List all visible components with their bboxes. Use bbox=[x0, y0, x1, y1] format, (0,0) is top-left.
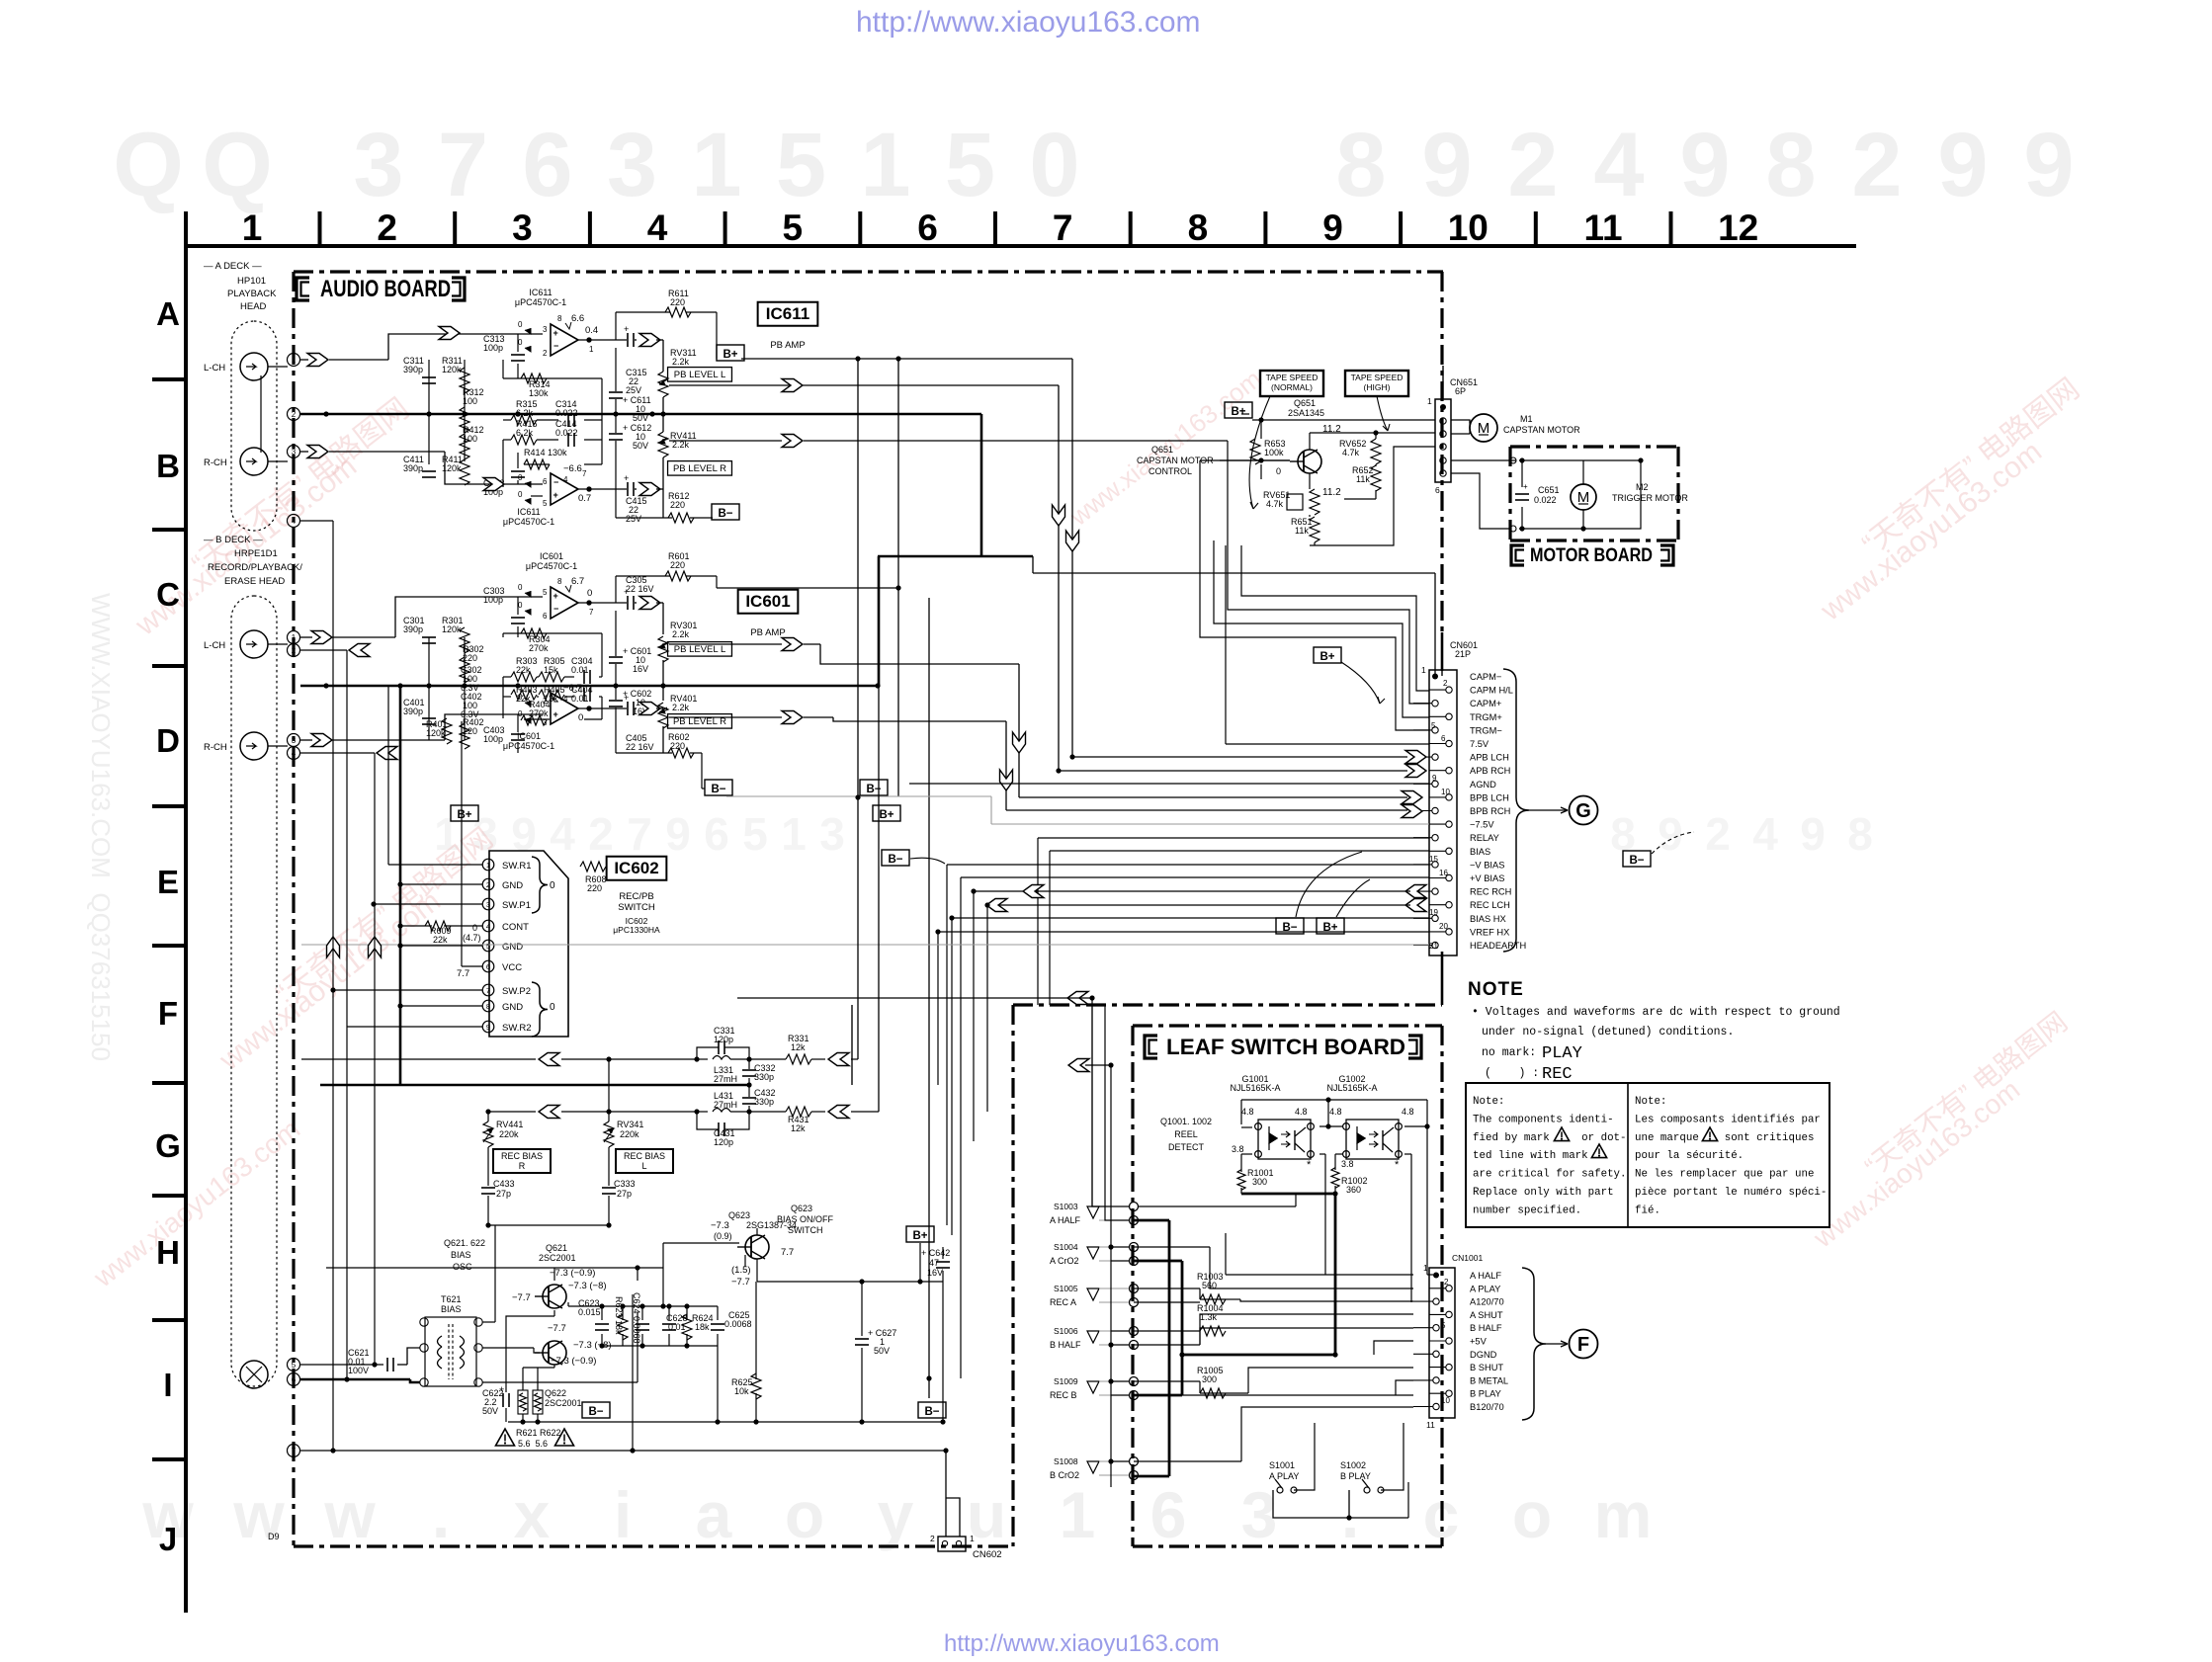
svg-text:S1004: S1004 bbox=[1054, 1242, 1078, 1252]
svg-text:5: 5 bbox=[783, 208, 804, 248]
svg-text:9: 9 bbox=[511, 808, 537, 860]
svg-text:1: 1 bbox=[292, 356, 297, 365]
svg-text:m: m bbox=[1594, 1478, 1653, 1551]
svg-text:A: A bbox=[156, 295, 180, 332]
svg-text:( ) :: ( ) : bbox=[1485, 1067, 1539, 1080]
svg-text:BIAS: BIAS bbox=[451, 1250, 471, 1260]
svg-text:6.7: 6.7 bbox=[571, 576, 584, 587]
svg-text:220: 220 bbox=[670, 297, 685, 307]
svg-text:NOTE: NOTE bbox=[1468, 979, 1524, 1000]
svg-text:1: 1 bbox=[1427, 396, 1432, 406]
svg-text:“天奇不有” 电路图网: “天奇不有” 电路图网 bbox=[1856, 373, 2085, 561]
svg-text:1: 1 bbox=[589, 345, 594, 354]
svg-text:8: 8 bbox=[1188, 208, 1209, 248]
svg-text:a: a bbox=[696, 1478, 733, 1551]
svg-text:R: R bbox=[519, 1161, 526, 1171]
svg-text:www.xiaoyu163.com: www.xiaoyu163.com bbox=[1807, 1074, 2025, 1254]
svg-text:B−: B− bbox=[1629, 855, 1644, 867]
svg-text:0: 0 bbox=[518, 338, 523, 347]
svg-text:SW.R1: SW.R1 bbox=[502, 861, 532, 872]
svg-text:22 16V: 22 16V bbox=[626, 584, 654, 594]
svg-text:www.xiaoyu163.com: www.xiaoyu163.com bbox=[1814, 435, 2048, 627]
svg-text:μPC1330HA: μPC1330HA bbox=[613, 925, 660, 935]
svg-text:220: 220 bbox=[587, 883, 602, 893]
svg-text:AGND: AGND bbox=[1470, 780, 1496, 789]
svg-text:6: 6 bbox=[543, 477, 548, 486]
svg-text:B+: B+ bbox=[1319, 651, 1334, 663]
svg-text:• Voltages and waveforms are d: • Voltages and waveforms are dc with res… bbox=[1472, 1006, 1840, 1019]
svg-text:220k: 220k bbox=[620, 1129, 639, 1139]
svg-text:APB LCH: APB LCH bbox=[1470, 753, 1509, 763]
svg-text:o: o bbox=[1512, 1478, 1552, 1551]
svg-text:IC611: IC611 bbox=[766, 304, 809, 323]
svg-text:PB LEVEL R: PB LEVEL R bbox=[673, 716, 726, 727]
svg-text:REC LCH: REC LCH bbox=[1470, 900, 1510, 910]
svg-text:*: * bbox=[1395, 1159, 1400, 1171]
svg-text:A HALF: A HALF bbox=[1050, 1215, 1081, 1225]
svg-text:fié.: fié. bbox=[1635, 1205, 1660, 1216]
svg-text:50V: 50V bbox=[874, 1346, 890, 1356]
svg-text:PB LEVEL R: PB LEVEL R bbox=[673, 463, 726, 474]
svg-text:F: F bbox=[158, 995, 178, 1032]
svg-text:pièce portant le numéro spéci-: pièce portant le numéro spéci- bbox=[1635, 1187, 1827, 1199]
svg-text:TAPE SPEED: TAPE SPEED bbox=[1266, 373, 1319, 382]
svg-text:270k: 270k bbox=[529, 643, 549, 653]
svg-text:+: + bbox=[624, 324, 629, 334]
svg-text:18k: 18k bbox=[695, 1322, 710, 1332]
svg-text:SW.P1: SW.P1 bbox=[502, 900, 531, 911]
svg-text:9: 9 bbox=[1937, 115, 1988, 215]
svg-text:10: 10 bbox=[1441, 788, 1450, 796]
svg-text:REC: REC bbox=[1542, 1065, 1573, 1084]
svg-text:0: 0 bbox=[518, 601, 523, 610]
svg-text:11: 11 bbox=[1583, 208, 1622, 248]
svg-text:Replace only with part: Replace only with part bbox=[1473, 1187, 1614, 1199]
svg-text:SWITCH: SWITCH bbox=[618, 902, 655, 913]
svg-text:8: 8 bbox=[557, 577, 562, 586]
svg-text:4.8: 4.8 bbox=[1295, 1107, 1308, 1117]
svg-text:6: 6 bbox=[704, 808, 729, 860]
svg-text:BPB LCH: BPB LCH bbox=[1470, 792, 1509, 802]
svg-text:8: 8 bbox=[486, 1002, 490, 1011]
svg-text:9: 9 bbox=[1658, 808, 1683, 860]
svg-text:www.xiaoyu163.com: www.xiaoyu163.com bbox=[213, 884, 447, 1077]
svg-text:BIAS: BIAS bbox=[1470, 847, 1490, 857]
svg-text:5: 5 bbox=[945, 115, 995, 215]
svg-text:(0.9): (0.9) bbox=[714, 1231, 732, 1241]
svg-text:REC BIAS: REC BIAS bbox=[501, 1151, 543, 1161]
svg-text:RV341: RV341 bbox=[617, 1120, 643, 1129]
svg-text:3: 3 bbox=[819, 808, 845, 860]
svg-text:0.01: 0.01 bbox=[571, 665, 589, 675]
svg-text:22k: 22k bbox=[433, 935, 448, 945]
svg-text:+V BIAS: +V BIAS bbox=[1470, 873, 1504, 883]
svg-text:D: D bbox=[156, 722, 180, 759]
svg-text:(NORMAL): (NORMAL) bbox=[1271, 382, 1313, 392]
svg-text:−7.7: −7.7 bbox=[548, 1323, 566, 1334]
svg-text:L-CH: L-CH bbox=[204, 640, 225, 651]
svg-text:0: 0 bbox=[1029, 115, 1079, 215]
svg-text:C333: C333 bbox=[614, 1179, 636, 1189]
svg-text:Note:: Note: bbox=[1473, 1096, 1504, 1108]
svg-text:PB LEVEL L: PB LEVEL L bbox=[674, 644, 725, 655]
svg-text:22 16V: 22 16V bbox=[626, 742, 654, 752]
svg-text:Q651: Q651 bbox=[1294, 398, 1316, 408]
svg-text:6: 6 bbox=[1150, 1478, 1187, 1551]
svg-text:http://www.xiaoyu163.com: http://www.xiaoyu163.com bbox=[944, 1630, 1220, 1657]
svg-text:2: 2 bbox=[486, 880, 490, 889]
svg-text:3.8: 3.8 bbox=[1341, 1159, 1354, 1169]
svg-text:1: 1 bbox=[292, 633, 297, 642]
svg-text:0: 0 bbox=[1276, 466, 1281, 476]
svg-text:1: 1 bbox=[1060, 1478, 1096, 1551]
svg-text:APB RCH: APB RCH bbox=[1470, 766, 1510, 776]
svg-text:4: 4 bbox=[563, 475, 568, 484]
svg-text:A PLAY: A PLAY bbox=[1470, 1284, 1500, 1293]
svg-text:μPC4570C-1: μPC4570C-1 bbox=[526, 561, 577, 571]
svg-text:AUDIO BOARD: AUDIO BOARD bbox=[320, 276, 451, 302]
svg-text:3.8: 3.8 bbox=[1232, 1144, 1244, 1154]
svg-text:3: 3 bbox=[607, 115, 657, 215]
svg-text:pour la sécurité.: pour la sécurité. bbox=[1635, 1150, 1744, 1162]
svg-text:4: 4 bbox=[486, 922, 490, 931]
svg-text:5: 5 bbox=[776, 115, 826, 215]
svg-text:2SC2001: 2SC2001 bbox=[545, 1398, 582, 1408]
svg-text:−: − bbox=[553, 604, 558, 614]
svg-text:(HIGH): (HIGH) bbox=[1364, 382, 1391, 392]
svg-text:2SC2001: 2SC2001 bbox=[539, 1253, 576, 1263]
svg-text:www.xiaoyu163.com: www.xiaoyu163.com bbox=[87, 1114, 305, 1293]
svg-text:360: 360 bbox=[1346, 1185, 1361, 1195]
svg-text:390p: 390p bbox=[403, 706, 423, 716]
svg-text:(4.7): (4.7) bbox=[463, 933, 481, 943]
svg-text:IC602: IC602 bbox=[614, 859, 658, 877]
svg-text:0: 0 bbox=[518, 320, 523, 329]
svg-text:1: 1 bbox=[486, 861, 490, 870]
svg-text:A120/70: A120/70 bbox=[1470, 1297, 1504, 1307]
svg-text:0: 0 bbox=[518, 490, 523, 499]
svg-text:OSC: OSC bbox=[453, 1262, 472, 1272]
svg-text:330p: 330p bbox=[754, 1072, 774, 1082]
svg-text:7: 7 bbox=[438, 115, 488, 215]
svg-text:−: − bbox=[553, 477, 558, 487]
svg-text:PLAYBACK: PLAYBACK bbox=[227, 289, 277, 299]
svg-text:7: 7 bbox=[589, 608, 594, 617]
svg-text:IC611: IC611 bbox=[517, 507, 540, 517]
svg-text:9: 9 bbox=[2023, 115, 2074, 215]
svg-text:B−: B− bbox=[888, 854, 902, 866]
svg-text:0: 0 bbox=[550, 880, 555, 891]
svg-text:4: 4 bbox=[1593, 115, 1644, 215]
svg-text:B−: B− bbox=[588, 1406, 603, 1418]
svg-text:21P: 21P bbox=[1455, 649, 1471, 659]
svg-text:−: − bbox=[553, 341, 558, 351]
svg-text:TRGM−: TRGM− bbox=[1470, 725, 1502, 735]
svg-text:RELAY: RELAY bbox=[1470, 833, 1499, 843]
svg-text:NJL5165K-A: NJL5165K-A bbox=[1326, 1083, 1377, 1093]
svg-text:2: 2 bbox=[1443, 679, 1448, 688]
svg-text:BPB RCH: BPB RCH bbox=[1470, 806, 1510, 816]
svg-text:2: 2 bbox=[543, 349, 548, 358]
svg-text:2: 2 bbox=[292, 410, 297, 419]
svg-text:VREF HX: VREF HX bbox=[1470, 927, 1509, 937]
svg-text:−7.3 (−8): −7.3 (−8) bbox=[568, 1281, 607, 1291]
svg-text:SW.P2: SW.P2 bbox=[502, 986, 531, 997]
svg-text:8: 8 bbox=[557, 314, 562, 323]
svg-text:y: y bbox=[878, 1478, 914, 1551]
svg-text:16V: 16V bbox=[633, 664, 648, 674]
svg-text:6P: 6P bbox=[1455, 386, 1466, 396]
svg-text:220: 220 bbox=[670, 741, 685, 751]
svg-text:— B DECK —: — B DECK — bbox=[204, 535, 263, 545]
svg-text:NJL5165K-A: NJL5165K-A bbox=[1230, 1083, 1280, 1093]
svg-text:5: 5 bbox=[292, 1361, 297, 1370]
svg-text:0.01: 0.01 bbox=[571, 694, 589, 704]
svg-text:0: 0 bbox=[578, 712, 583, 723]
svg-text:DETECT: DETECT bbox=[1168, 1142, 1205, 1152]
svg-text:+: + bbox=[1523, 482, 1528, 491]
svg-text:2: 2 bbox=[1507, 115, 1558, 215]
svg-text:μPC4570C-1: μPC4570C-1 bbox=[503, 741, 554, 751]
svg-text:1: 1 bbox=[781, 808, 807, 860]
svg-text:A CrO2: A CrO2 bbox=[1050, 1256, 1079, 1266]
svg-text:10k: 10k bbox=[734, 1386, 749, 1396]
svg-text:IC601: IC601 bbox=[745, 592, 790, 611]
svg-text:−7.3 (−0.9): −7.3 (−0.9) bbox=[551, 1356, 596, 1367]
svg-text:x: x bbox=[514, 1478, 551, 1551]
svg-text:*: * bbox=[1307, 1159, 1312, 1171]
svg-text:9: 9 bbox=[665, 808, 691, 860]
svg-text:4: 4 bbox=[292, 749, 297, 758]
svg-text:100V: 100V bbox=[348, 1366, 369, 1375]
svg-text:12: 12 bbox=[1718, 208, 1758, 248]
svg-text:220: 220 bbox=[670, 560, 685, 570]
svg-text:4: 4 bbox=[292, 517, 297, 526]
svg-text:120p: 120p bbox=[714, 1035, 733, 1044]
svg-text:HRPE1D1: HRPE1D1 bbox=[234, 548, 278, 559]
svg-text:H: H bbox=[156, 1234, 180, 1271]
svg-text:25V: 25V bbox=[626, 514, 641, 524]
svg-text:5: 5 bbox=[1431, 721, 1436, 730]
svg-text:B PLAY: B PLAY bbox=[1470, 1389, 1501, 1399]
svg-text:HEADEARTH: HEADEARTH bbox=[1470, 941, 1526, 951]
svg-text:4.7k: 4.7k bbox=[1342, 448, 1360, 457]
svg-text:2.2k: 2.2k bbox=[672, 357, 690, 367]
svg-text:B+: B+ bbox=[1231, 406, 1245, 418]
svg-text:R621 R622: R621 R622 bbox=[516, 1428, 561, 1438]
svg-text:S1002: S1002 bbox=[1340, 1460, 1366, 1470]
svg-text:15: 15 bbox=[1429, 855, 1438, 864]
svg-text:CAPM+: CAPM+ bbox=[1470, 699, 1501, 708]
svg-text:Note:: Note: bbox=[1635, 1096, 1666, 1108]
svg-text:DGND: DGND bbox=[1470, 1350, 1497, 1360]
svg-text:B CrO2: B CrO2 bbox=[1050, 1470, 1079, 1480]
svg-text:C: C bbox=[156, 576, 180, 613]
svg-text:+: + bbox=[553, 591, 558, 601]
svg-text:2.2k: 2.2k bbox=[672, 629, 690, 639]
svg-text:4.8: 4.8 bbox=[1402, 1107, 1414, 1117]
svg-text:Les composants identifiés par: Les composants identifiés par bbox=[1635, 1114, 1821, 1125]
svg-text:3: 3 bbox=[292, 448, 297, 457]
svg-text:+5V: +5V bbox=[1470, 1337, 1488, 1347]
svg-text:10: 10 bbox=[1448, 208, 1489, 248]
svg-text:+: + bbox=[624, 473, 629, 483]
svg-text:5.6 5.6: 5.6 5.6 bbox=[518, 1439, 548, 1449]
svg-text:300: 300 bbox=[1202, 1374, 1217, 1384]
svg-text:11k: 11k bbox=[1356, 474, 1370, 484]
svg-text:2SA1345: 2SA1345 bbox=[1288, 408, 1324, 418]
svg-text:6: 6 bbox=[292, 1375, 297, 1384]
svg-text:5: 5 bbox=[543, 499, 548, 508]
svg-text:TRGM+: TRGM+ bbox=[1470, 712, 1502, 722]
svg-text:27p: 27p bbox=[496, 1189, 511, 1199]
svg-text:7: 7 bbox=[486, 986, 490, 995]
svg-text:220k: 220k bbox=[499, 1129, 519, 1139]
svg-text:5: 5 bbox=[742, 808, 768, 860]
svg-text:REEL: REEL bbox=[1174, 1129, 1198, 1139]
svg-text:+: + bbox=[553, 490, 558, 500]
svg-text:2: 2 bbox=[1851, 115, 1902, 215]
svg-text:L-CH: L-CH bbox=[204, 363, 225, 374]
svg-text:6.6: 6.6 bbox=[571, 313, 584, 324]
svg-text:REC B: REC B bbox=[1050, 1390, 1077, 1400]
svg-text:330p: 330p bbox=[754, 1097, 774, 1107]
svg-text:A PLAY: A PLAY bbox=[1269, 1471, 1299, 1481]
svg-text:0: 0 bbox=[550, 1002, 555, 1013]
svg-text:2: 2 bbox=[377, 208, 397, 248]
svg-text:3: 3 bbox=[486, 900, 490, 909]
svg-text:i: i bbox=[614, 1478, 632, 1551]
svg-text:G: G bbox=[1575, 800, 1591, 822]
svg-text:9: 9 bbox=[1322, 208, 1343, 248]
svg-text:B−: B− bbox=[718, 508, 732, 520]
svg-text:ted line with mark: ted line with mark bbox=[1473, 1150, 1588, 1162]
svg-text:−7.3 (−0.9): −7.3 (−0.9) bbox=[550, 1268, 595, 1279]
svg-text:S1009: S1009 bbox=[1054, 1376, 1078, 1386]
svg-text:2: 2 bbox=[588, 808, 614, 860]
svg-text:LEAF SWITCH BOARD: LEAF SWITCH BOARD bbox=[1166, 1035, 1405, 1059]
svg-text:7: 7 bbox=[1053, 208, 1073, 248]
svg-text:fied by mark or dot-: fied by mark or dot- bbox=[1473, 1132, 1627, 1144]
svg-text:2: 2 bbox=[292, 646, 297, 655]
svg-text:0.015: 0.015 bbox=[578, 1307, 601, 1317]
svg-text:TRIGGER MOTOR: TRIGGER MOTOR bbox=[1612, 493, 1688, 503]
svg-text:C651: C651 bbox=[1538, 485, 1560, 495]
svg-text:+: + bbox=[553, 328, 558, 338]
svg-text:0.4: 0.4 bbox=[585, 325, 598, 336]
svg-text:2.2k: 2.2k bbox=[672, 703, 690, 712]
svg-text:T621: T621 bbox=[441, 1294, 462, 1304]
svg-text:S1001: S1001 bbox=[1269, 1460, 1295, 1470]
svg-text:B PLAY: B PLAY bbox=[1340, 1471, 1371, 1481]
svg-text:CN602: CN602 bbox=[973, 1549, 1002, 1560]
svg-text:27mH: 27mH bbox=[714, 1074, 737, 1084]
svg-text:6: 6 bbox=[1441, 734, 1446, 743]
svg-text:0.7: 0.7 bbox=[578, 493, 591, 504]
svg-text:B HALF: B HALF bbox=[1470, 1323, 1502, 1333]
svg-text:— A DECK —: — A DECK — bbox=[204, 261, 262, 272]
svg-text:390p: 390p bbox=[403, 365, 423, 374]
svg-text:+: + bbox=[553, 709, 558, 719]
svg-text:Q621. 622: Q621. 622 bbox=[444, 1238, 485, 1248]
svg-text:4.8: 4.8 bbox=[1329, 1107, 1342, 1117]
svg-text:S1003: S1003 bbox=[1054, 1202, 1078, 1211]
svg-text:4: 4 bbox=[1752, 808, 1778, 860]
svg-text:w: w bbox=[323, 1478, 376, 1551]
svg-text:300: 300 bbox=[1252, 1177, 1267, 1187]
svg-text:number specified.: number specified. bbox=[1473, 1205, 1581, 1216]
svg-text:100p: 100p bbox=[483, 734, 503, 744]
svg-text:1: 1 bbox=[1421, 665, 1426, 675]
svg-text:50V: 50V bbox=[482, 1406, 498, 1416]
svg-text:B: B bbox=[156, 448, 180, 484]
svg-text:“天奇不有” 电路图网: “天奇不有” 电路图网 bbox=[1859, 1006, 2073, 1183]
svg-text:D9: D9 bbox=[268, 1532, 280, 1541]
svg-text:J: J bbox=[159, 1521, 177, 1557]
svg-text:20: 20 bbox=[1439, 922, 1448, 931]
svg-text:11k: 11k bbox=[1295, 526, 1309, 536]
svg-text:6: 6 bbox=[1435, 485, 1440, 495]
svg-text:120k: 120k bbox=[442, 624, 462, 634]
svg-text:GND: GND bbox=[502, 1002, 523, 1013]
svg-text:REC BIAS: REC BIAS bbox=[624, 1151, 665, 1161]
svg-text:B−: B− bbox=[924, 1406, 939, 1418]
svg-text:16: 16 bbox=[1439, 869, 1448, 877]
svg-text:http://www.xiaoyu163.com: http://www.xiaoyu163.com bbox=[856, 6, 1201, 39]
svg-text:8: 8 bbox=[1335, 115, 1386, 215]
svg-text:B+: B+ bbox=[723, 349, 737, 361]
svg-text:PB AMP: PB AMP bbox=[750, 627, 785, 638]
svg-text:390p: 390p bbox=[403, 463, 423, 473]
svg-text:SW.R2: SW.R2 bbox=[502, 1023, 532, 1034]
svg-text:IC611: IC611 bbox=[529, 288, 552, 297]
svg-text:S1005: S1005 bbox=[1054, 1284, 1078, 1293]
svg-text:I: I bbox=[163, 1367, 172, 1403]
svg-text:3: 3 bbox=[512, 208, 533, 248]
svg-text:4.7k: 4.7k bbox=[1266, 499, 1284, 509]
svg-text:1: 1 bbox=[691, 115, 741, 215]
svg-text:120p: 120p bbox=[714, 1137, 733, 1147]
svg-text:8: 8 bbox=[1847, 808, 1873, 860]
svg-text:9: 9 bbox=[486, 1023, 490, 1032]
svg-text:7: 7 bbox=[627, 808, 652, 860]
svg-text:(1.5): (1.5) bbox=[731, 1265, 751, 1276]
svg-text:Q651: Q651 bbox=[1151, 445, 1173, 455]
svg-text:GND: GND bbox=[502, 942, 523, 953]
svg-text:6: 6 bbox=[917, 208, 938, 248]
svg-text:R414 130k: R414 130k bbox=[524, 448, 567, 457]
svg-text:A SHUT: A SHUT bbox=[1470, 1310, 1503, 1320]
svg-text:M1: M1 bbox=[1520, 414, 1533, 424]
svg-text:une marque sont critiques: une marque sont critiques bbox=[1635, 1132, 1814, 1144]
svg-text:2: 2 bbox=[1444, 1278, 1449, 1287]
svg-text:220: 220 bbox=[670, 500, 685, 510]
svg-text:4: 4 bbox=[550, 808, 575, 860]
svg-text:The components identi-: The components identi- bbox=[1473, 1114, 1614, 1125]
svg-text:390p: 390p bbox=[403, 624, 423, 634]
svg-text:o: o bbox=[785, 1478, 824, 1551]
svg-text:CONTROL: CONTROL bbox=[1149, 466, 1192, 476]
svg-text:−7.7: −7.7 bbox=[512, 1292, 531, 1303]
svg-text:0: 0 bbox=[472, 923, 477, 933]
svg-text:0: 0 bbox=[518, 583, 523, 592]
svg-text:Q: Q bbox=[113, 115, 184, 215]
svg-text:−V BIAS: −V BIAS bbox=[1470, 860, 1504, 870]
svg-text:Q623: Q623 bbox=[791, 1204, 812, 1213]
svg-text:11: 11 bbox=[1426, 1420, 1435, 1430]
svg-text:BIAS: BIAS bbox=[441, 1304, 462, 1314]
svg-text:Q621: Q621 bbox=[546, 1243, 567, 1253]
